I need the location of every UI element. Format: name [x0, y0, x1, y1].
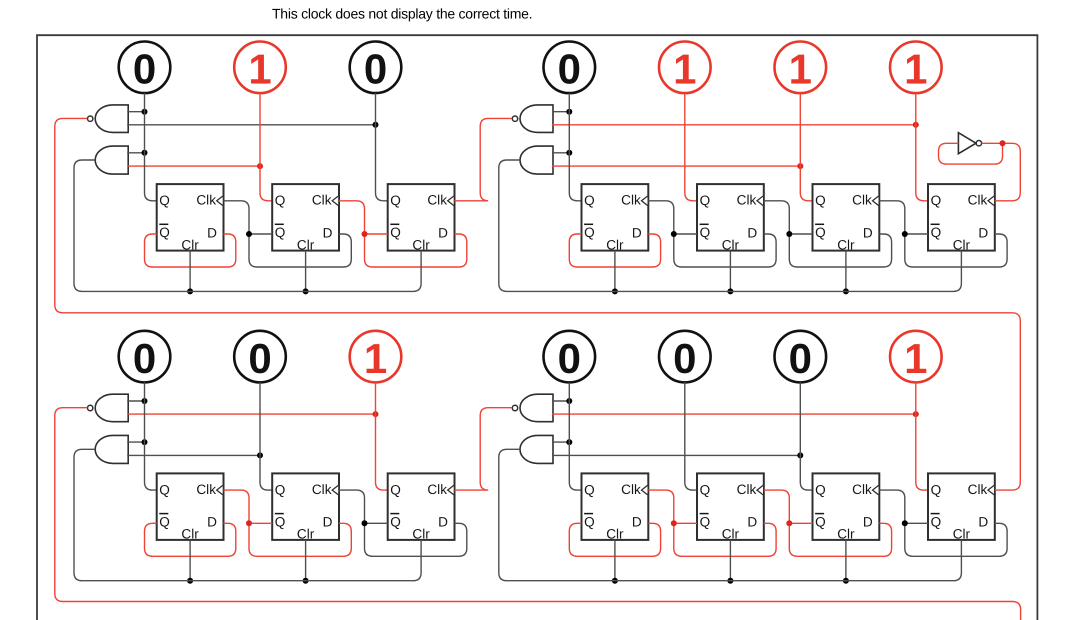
junction G4 FF2 Qbar node [671, 520, 677, 526]
wire G1 FF3 Qbar stub to junction [365, 233, 388, 235]
node G4 bit4 state circle [890, 331, 942, 383]
svg-text:Clr: Clr [953, 237, 971, 252]
wire G4 NAND input 2 (to Q4 line) [552, 413, 916, 415]
svg-text:Q: Q [931, 193, 942, 208]
node G3 bit1 state digit [133, 335, 156, 382]
svg-text:Q: Q [815, 514, 826, 529]
svg-text:Q: Q [584, 225, 595, 240]
svg-text:Clr: Clr [412, 527, 430, 542]
svg-text:1: 1 [904, 46, 927, 93]
wire G3 FF3 Qbar stub to junction [365, 522, 388, 524]
junction G3 AND input-1 tap on Q1 line [142, 439, 148, 445]
wire G3 FF1 Qbar-to-D feedback loop [145, 523, 236, 556]
svg-text:0: 0 [789, 335, 812, 382]
wire G4 FF4 Qbar stub to junction [905, 522, 928, 524]
junction G4 FF2 Clr tap on clear bus [727, 578, 733, 584]
svg-text:1: 1 [364, 335, 387, 382]
AND gate G1 (facing left) [95, 146, 128, 174]
wire G2 FF2 Qbar-to-D loop under box [674, 234, 776, 267]
wire G4 FF3 Qbar to FF2 Clk link [764, 490, 790, 523]
wire G2 NAND output to G1 FF3 Clk [455, 118, 513, 200]
wire G1 Q2 vertical from indicator to Q pin [260, 93, 272, 201]
wire G3 AND input 2 (to Q2 line) [127, 454, 260, 456]
wire G3 FF2 Qbar stub to junction [249, 522, 272, 524]
svg-text:Clr: Clr [606, 527, 624, 542]
wire G1 FF2 Qbar to FF1 Clk link [224, 201, 250, 234]
svg-text:D: D [323, 225, 333, 240]
svg-text:Clk: Clk [852, 193, 872, 208]
svg-text:D: D [978, 225, 988, 240]
wire G2 FF3 Qbar to FF2 Clk link [764, 201, 790, 234]
wire G4 FF3 Clr stub [845, 540, 847, 581]
svg-text:1: 1 [789, 46, 812, 93]
svg-text:D: D [747, 515, 757, 530]
svg-text:Clk: Clk [312, 193, 332, 208]
junction G1 FF2 Clr tap on clear bus [303, 288, 309, 294]
wire G3 NAND input 2 (to Q3 line) [127, 413, 375, 415]
svg-text:D: D [207, 225, 217, 240]
wire G3 FF1 Clr stub [189, 540, 191, 581]
node G3 bit1 state circle [119, 331, 171, 383]
NAND gate G1 (facing left) [88, 105, 129, 132]
wire G4 FF2 Qbar to FF1 Clk link [648, 490, 674, 523]
wire G4 FF4 Qbar-to-D loop under box [905, 523, 1007, 556]
wire G3 NAND output to next stage (exits bottom) [55, 408, 1021, 620]
wire G2 FF2 Qbar to FF1 Clk link [648, 201, 674, 234]
AND gate G2 (facing left) [520, 146, 553, 174]
svg-text:Q: Q [390, 514, 401, 529]
wire G3 FF2 Clr stub [305, 540, 307, 581]
node G2 bit1 state digit [558, 46, 581, 93]
wire G4 Q2 vertical from indicator to Q pin [685, 382, 697, 490]
svg-text:Q: Q [159, 225, 170, 240]
wire G4 Q4 vertical from indicator to Q pin [916, 382, 928, 490]
AND gate G4 (facing left) [520, 435, 553, 463]
svg-text:D: D [863, 515, 873, 530]
flip-flop G1 FF2 (D flip-flop: Q, Clk, Qbar, Clr, D) [272, 184, 339, 252]
junction G4 FF1 Clr tap on clear bus [612, 578, 618, 584]
wire G2 Q3 vertical from indicator to Q pin [800, 93, 812, 201]
svg-text:Q: Q [931, 482, 942, 497]
junction G1 FF2 Qbar node [246, 231, 252, 237]
wire G2 FF4 Qbar to FF3 Clk link [879, 201, 905, 234]
svg-text:Q: Q [159, 482, 170, 497]
flip-flop G1 FF3 (D flip-flop: Q, Clk, Qbar, Clr, D) [388, 184, 455, 252]
svg-text:Q: Q [815, 225, 826, 240]
junction G4 AND input-2 tap on Q3 line [797, 452, 803, 458]
svg-text:Q: Q [815, 193, 826, 208]
svg-text:D: D [632, 515, 642, 530]
junction inverter output node [1000, 140, 1006, 146]
wire G1 NAND input 1 stub [127, 111, 144, 113]
node G4 bit1 state circle [544, 331, 596, 383]
svg-text:0: 0 [673, 335, 696, 382]
junction G4 AND input-1 tap on Q1 line [566, 439, 572, 445]
svg-text:Clr: Clr [722, 237, 740, 252]
junction G3 FF2 Clr tap on clear bus [303, 578, 309, 584]
wire G2 AND output to clear bus [499, 160, 962, 291]
wire G1 Q3 vertical from indicator to Q pin [376, 93, 388, 201]
svg-text:Q: Q [159, 193, 170, 208]
junction G1 AND input-2 tap on Q2 line [257, 163, 263, 169]
svg-text:Clr: Clr [181, 237, 199, 252]
flip-flop G4 FF1 (D flip-flop: Q, Clk, Qbar, Clr, D) [582, 473, 649, 541]
svg-text:0: 0 [558, 335, 581, 382]
junction G2 FF2 Qbar node [671, 231, 677, 237]
node G4 bit3 state circle [775, 331, 827, 383]
svg-text:D: D [438, 515, 448, 530]
node G2 bit2 state digit [673, 46, 696, 93]
svg-text:Clk: Clk [968, 193, 988, 208]
wire G4 FF3 Qbar stub to junction [789, 522, 812, 524]
svg-text:Clk: Clk [968, 482, 988, 497]
flip-flop G1 FF1 (D flip-flop: Q, Clk, Qbar, Clr, D) [157, 184, 224, 252]
wire G3 AND output to clear bus [74, 449, 421, 580]
wire G4 AND input 2 (to Q3 line) [552, 454, 800, 456]
wire G4 FF2 Qbar-to-D loop under box [674, 523, 776, 556]
svg-text:Clr: Clr [953, 527, 971, 542]
flip-flop G4 FF3 (D flip-flop: Q, Clk, Qbar, Clr, D) [813, 473, 880, 541]
svg-text:1: 1 [904, 335, 927, 382]
svg-text:Clr: Clr [297, 237, 315, 252]
wire G1 AND input 2 (to Q2 line) [127, 165, 260, 167]
flip-flop G2 FF1 (D flip-flop: Q, Clk, Qbar, Clr, D) [582, 184, 649, 252]
svg-text:D: D [632, 225, 642, 240]
wire G4 FF1 Qbar-to-D feedback loop [569, 523, 660, 556]
junction G2 FF3 Clr tap on clear bus [843, 288, 849, 294]
svg-text:Q: Q [700, 225, 711, 240]
svg-text:D: D [747, 225, 757, 240]
svg-text:Clr: Clr [837, 527, 855, 542]
junction G4 FF3 Clr tap on clear bus [843, 578, 849, 584]
wire G1 FF1 Qbar-to-D feedback loop [145, 234, 236, 267]
svg-text:Clk: Clk [621, 482, 641, 497]
node G1 bit1 state circle [119, 42, 171, 94]
wire G2 FF3 Qbar stub to junction [789, 233, 812, 235]
svg-text:D: D [863, 225, 873, 240]
wire G3 FF2 Qbar to FF1 Clk link [224, 490, 250, 523]
wire G1 FF2 Clr stub [305, 251, 307, 292]
wire inverter feedback loop (output back to input) [939, 143, 1003, 164]
svg-text:Clk: Clk [427, 193, 447, 208]
wire G2 Q4 vertical from indicator to Q pin [916, 93, 928, 201]
wire G3 NAND input 1 stub [127, 400, 144, 402]
svg-text:Q: Q [700, 193, 711, 208]
wire G2 FF4 Qbar-to-D loop under box [905, 234, 1007, 267]
svg-text:Q: Q [931, 514, 942, 529]
svg-text:Q: Q [584, 193, 595, 208]
wire G4 FF2 Qbar stub to junction [674, 522, 697, 524]
wire G2 FF3 Qbar-to-D loop under box [789, 234, 891, 267]
junction G2 FF4 Qbar node [902, 231, 908, 237]
svg-text:Q: Q [390, 225, 401, 240]
svg-text:Clk: Clk [427, 482, 447, 497]
wire G2 FF2 Clr stub [729, 251, 731, 292]
wire G3 FF3 Qbar-to-D loop under box [365, 523, 467, 556]
svg-text:D: D [438, 225, 448, 240]
NAND gate G2 (facing left) [512, 105, 553, 132]
wire G2 FF4 Qbar stub to junction [905, 233, 928, 235]
junction G3 FF2 Qbar node [246, 520, 252, 526]
junction G1 FF3 Qbar node [362, 231, 368, 237]
node G4 bit3 state digit [789, 335, 812, 382]
wire G4 FF1 Clr stub [614, 540, 616, 581]
svg-text:Q: Q [815, 482, 826, 497]
wire G4 FF4 Qbar to FF3 Clk link [879, 490, 905, 523]
svg-text:Q: Q [931, 225, 942, 240]
node G3 bit2 state digit [248, 335, 271, 382]
junction G3 FF1 Clr tap on clear bus [187, 578, 193, 584]
wire G1 FF2 Qbar stub to junction [249, 233, 272, 235]
flip-flop G2 FF4 (D flip-flop: Q, Clk, Qbar, Clr, D) [928, 184, 995, 252]
junction G4 FF4 Qbar node [902, 520, 908, 526]
svg-text:Clr: Clr [837, 237, 855, 252]
junction G2 FF3 Qbar node [786, 231, 792, 237]
svg-text:D: D [978, 515, 988, 530]
svg-text:Q: Q [584, 514, 595, 529]
wire G1 AND input 1 stub [127, 152, 144, 154]
wire G3 Q2 vertical from indicator to Q pin [260, 382, 272, 490]
junction G3 FF3 Qbar node [362, 520, 368, 526]
svg-text:Clr: Clr [181, 527, 199, 542]
junction G2 AND input-2 tap on Q3 line [797, 163, 803, 169]
wire G2 AND input 1 stub [552, 152, 569, 154]
node G1 bit3 state circle [350, 42, 402, 94]
svg-text:0: 0 [364, 46, 387, 93]
node G1 bit3 state digit [364, 46, 387, 93]
node G3 bit2 state circle [234, 331, 286, 383]
wire G3 FF3 Qbar to FF2 Clk link [339, 490, 365, 523]
wire G3 AND input 1 stub [127, 441, 144, 443]
node G2 bit3 state digit [789, 46, 812, 93]
wire G2 NAND input 1 stub [552, 111, 569, 113]
node G4 bit4 state digit [904, 335, 927, 382]
junction G3 NAND input-2 tap on Q3 line [373, 411, 379, 417]
svg-text:D: D [207, 515, 217, 530]
svg-text:1: 1 [248, 46, 271, 93]
junction G4 NAND input-1 tap on Q1 line [566, 398, 572, 404]
junction G4 NAND input-2 tap on Q4 line [913, 411, 919, 417]
NAND gate G4 (facing left) [512, 394, 553, 422]
junction G2 FF1 Clr tap on clear bus [612, 288, 618, 294]
svg-text:Clr: Clr [412, 237, 430, 252]
junction G1 AND input-1 tap on Q1 line [142, 150, 148, 156]
wire G1 Q1 vertical from indicator to Q pin [145, 93, 157, 201]
svg-text:Clk: Clk [737, 482, 757, 497]
flip-flop G4 FF2 (D flip-flop: Q, Clk, Qbar, Clr, D) [697, 473, 764, 541]
svg-text:D: D [323, 515, 333, 530]
junction G2 NAND input-1 tap on Q1 line [566, 109, 572, 115]
wire G3 Q3 vertical from indicator to Q pin [376, 382, 388, 490]
svg-text:Q: Q [700, 514, 711, 529]
junction G3 AND input-2 tap on Q2 line [257, 452, 263, 458]
wire G3 Q1 vertical from indicator to Q pin [145, 382, 157, 490]
svg-text:Clr: Clr [722, 527, 740, 542]
svg-text:Q: Q [584, 482, 595, 497]
flip-flop G3 FF1 (D flip-flop: Q, Clk, Qbar, Clr, D) [157, 473, 224, 541]
node G2 bit2 state circle [659, 42, 711, 94]
svg-text:Q: Q [159, 514, 170, 529]
svg-text:Q: Q [275, 514, 286, 529]
node G3 bit3 state digit [364, 335, 387, 382]
node G1 bit1 state digit [133, 46, 156, 93]
svg-text:Q: Q [275, 193, 286, 208]
wire G4 Q3 vertical from indicator to Q pin [800, 382, 812, 490]
node G4 bit2 state circle [659, 331, 711, 383]
svg-text:Clk: Clk [312, 482, 332, 497]
svg-text:Clk: Clk [621, 193, 641, 208]
wire G1 NAND output to G4 FF4 Clk (long route) [55, 118, 1021, 490]
junction G2 AND input-1 tap on Q1 line [566, 150, 572, 156]
svg-text:1: 1 [673, 46, 696, 93]
node G4 bit2 state digit [673, 335, 696, 382]
wire G4 FF3 Qbar-to-D loop under box [789, 523, 891, 556]
svg-text:Clr: Clr [297, 527, 315, 542]
junction G1 NAND input-2 tap on Q3 line [373, 122, 379, 128]
junction G1 NAND input-1 tap on Q1 line [142, 109, 148, 115]
wire G2 AND input 2 (to Q3 line) [552, 165, 800, 167]
junction G1 FF1 Clr tap on clear bus [187, 288, 193, 294]
wire G4 Q1 vertical from indicator to Q pin [569, 382, 581, 490]
svg-text:Q: Q [390, 193, 401, 208]
svg-text:Q: Q [275, 225, 286, 240]
wire G2 FF1 Qbar-to-D feedback loop [569, 234, 660, 267]
node G4 bit1 state digit [558, 335, 581, 382]
svg-text:0: 0 [248, 335, 271, 382]
wire G4 NAND output to G3 FF3 Clk [455, 408, 513, 490]
flip-flop G4 FF4 (D flip-flop: Q, Clk, Qbar, Clr, D) [928, 473, 995, 541]
wire G2 FF2 Qbar stub to junction [674, 233, 697, 235]
wire G4 AND input 1 stub [552, 441, 569, 443]
flip-flop G3 FF2 (D flip-flop: Q, Clk, Qbar, Clr, D) [272, 473, 339, 541]
svg-text:Clk: Clk [196, 482, 216, 497]
AND gate G3 (facing left) [95, 435, 128, 463]
wire G4 AND output to clear bus [499, 449, 962, 580]
wire G2 Q2 vertical from indicator to Q pin [685, 93, 697, 201]
junction G3 NAND input-1 tap on Q1 line [142, 398, 148, 404]
svg-text:Q: Q [390, 482, 401, 497]
inverter U-osc (clock source) [958, 133, 981, 154]
svg-text:0: 0 [133, 46, 156, 93]
wire G1 FF2 Qbar-to-D loop under box [249, 234, 351, 267]
junction G4 FF3 Qbar node [786, 520, 792, 526]
wire G4 NAND input 1 stub [552, 400, 569, 402]
svg-text:0: 0 [133, 335, 156, 382]
svg-text:Clr: Clr [606, 237, 624, 252]
wire inverter output to G2 FF4 Clk [982, 143, 1021, 201]
node G1 bit2 state digit [248, 46, 271, 93]
junction G2 NAND input-2 tap on Q4 line [913, 122, 919, 128]
wire G4 FF2 Clr stub [729, 540, 731, 581]
wire G1 FF1 Clr stub [189, 251, 191, 292]
junction G2 FF2 Clr tap on clear bus [727, 288, 733, 294]
svg-text:Clk: Clk [196, 193, 216, 208]
flip-flop G3 FF3 (D flip-flop: Q, Clk, Qbar, Clr, D) [388, 473, 455, 541]
wire G2 Q1 vertical from indicator to Q pin [569, 93, 581, 201]
node G2 bit4 state digit [904, 46, 927, 93]
svg-text:Q: Q [275, 482, 286, 497]
wire G1 AND output to clear bus [74, 160, 421, 291]
svg-text:Clk: Clk [852, 482, 872, 497]
node G3 bit3 state circle [350, 331, 402, 383]
flip-flop G2 FF3 (D flip-flop: Q, Clk, Qbar, Clr, D) [813, 184, 880, 252]
svg-text:This clock does not display th: This clock does not display the correct … [272, 5, 532, 21]
node G2 bit4 state circle [890, 42, 942, 94]
svg-text:Q: Q [700, 482, 711, 497]
svg-text:Clk: Clk [737, 193, 757, 208]
wire G3 FF2 Qbar-to-D loop under box [249, 523, 351, 556]
NAND gate G3 (facing left) [88, 394, 129, 422]
wire G1 NAND input 2 (to Q3 line) [127, 124, 375, 126]
wire G2 FF1 Clr stub [614, 251, 616, 292]
wire G2 FF3 Clr stub [845, 251, 847, 292]
node G2 bit1 state circle [544, 42, 596, 94]
svg-text:0: 0 [558, 46, 581, 93]
wire G1 FF3 Qbar to FF2 Clk link [339, 201, 365, 234]
flip-flop G2 FF2 (D flip-flop: Q, Clk, Qbar, Clr, D) [697, 184, 764, 252]
node G2 bit3 state circle [775, 42, 827, 94]
wire G1 FF3 Qbar-to-D loop under box [365, 234, 467, 267]
node G1 bit2 state circle [234, 42, 286, 94]
wire G2 NAND input 2 (to Q4 line) [552, 124, 916, 126]
